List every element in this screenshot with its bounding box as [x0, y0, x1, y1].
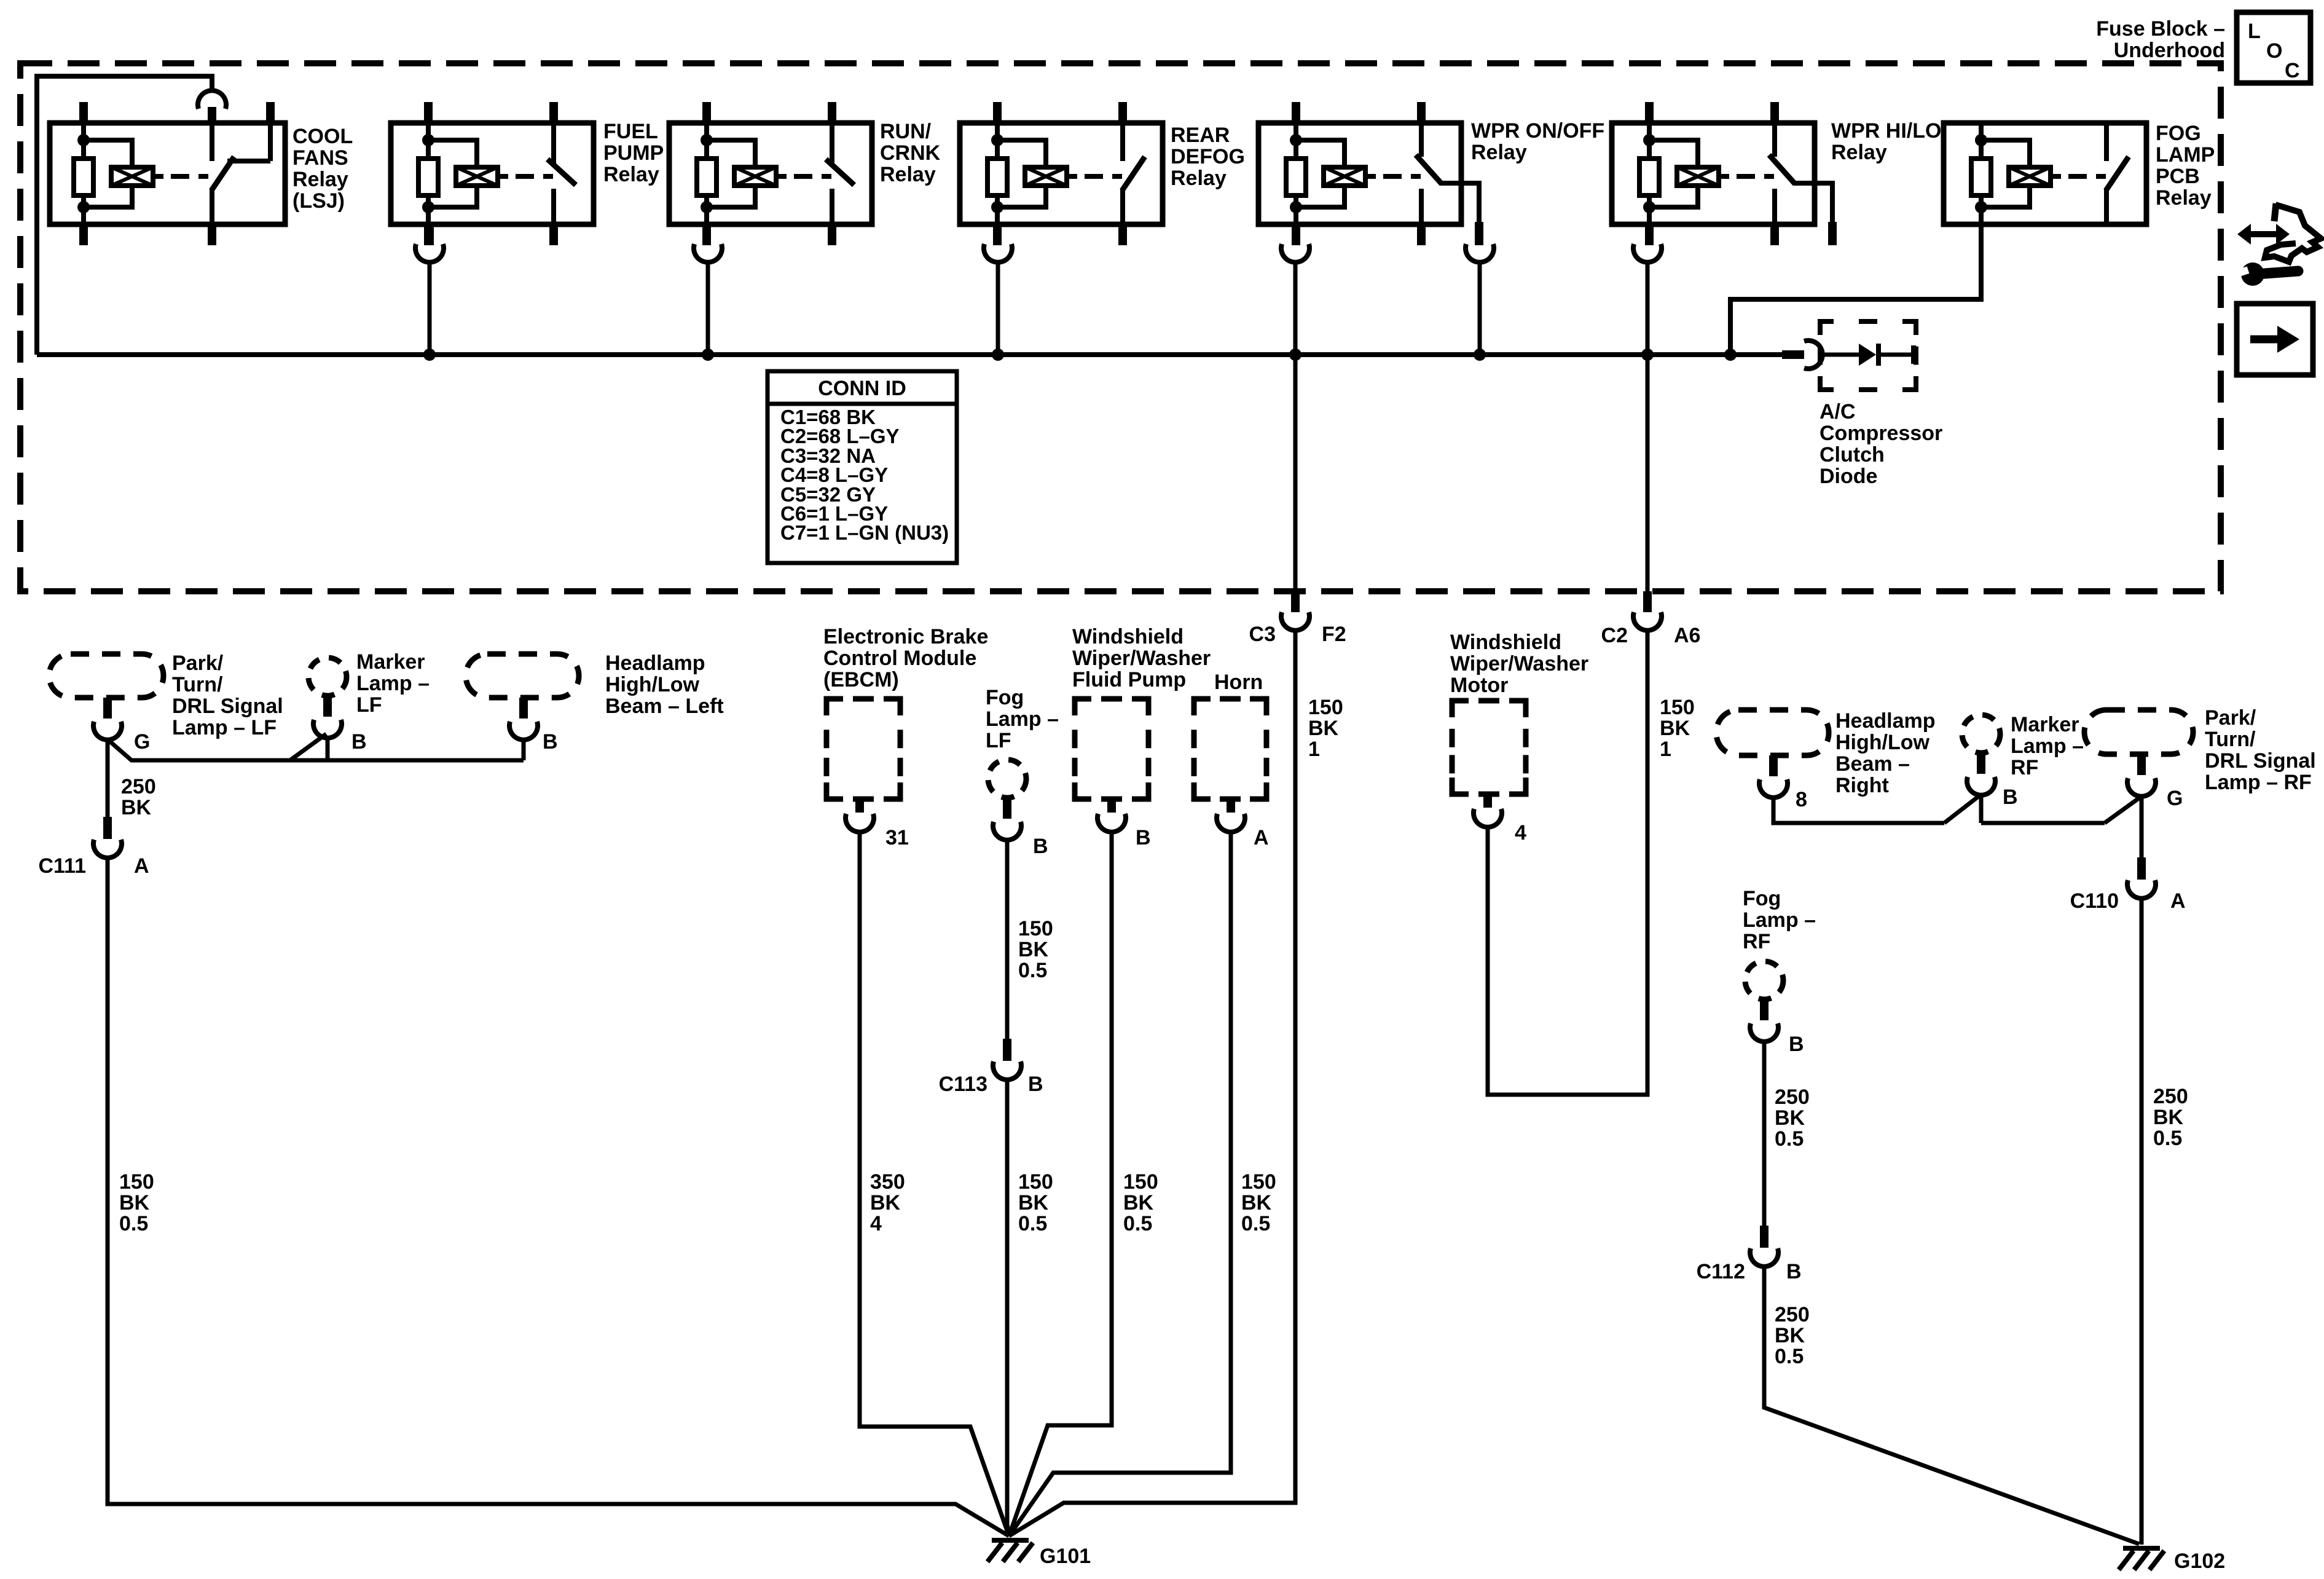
label 150 BK 0.5 (C111 wire) — [119, 1170, 154, 1235]
label 150 BK 0.5 (horn wire) — [1241, 1170, 1276, 1235]
wire right lamps ground tie — [1773, 795, 2140, 823]
junction dot FUEL PUMP at bus — [423, 348, 436, 361]
svg-text:CONN ID: CONN ID — [818, 377, 906, 400]
lamp Fog Lamp - RF (dashed circle) — [1745, 961, 1783, 999]
label pin A C111 — [134, 854, 149, 878]
svg-text:BK: BK — [870, 1191, 901, 1215]
svg-text:250: 250 — [2153, 1085, 2188, 1108]
label 250 BK 0.5 (C110 wire) — [2153, 1085, 2188, 1150]
label pin B C112 — [1786, 1260, 1802, 1283]
svg-text:0.5: 0.5 — [1018, 1212, 1047, 1235]
svg-text:A6: A6 — [1674, 624, 1700, 647]
svg-text:RUN/: RUN/ — [880, 120, 932, 143]
label pin G (RF) — [2167, 787, 2183, 810]
wire FOG LAMP relay coil to bus — [1730, 224, 1981, 355]
svg-text:1: 1 — [1660, 738, 1671, 761]
svg-text:Lamp –: Lamp – — [986, 707, 1059, 731]
label G102 — [2174, 1549, 2225, 1573]
svg-text:Fluid Pump: Fluid Pump — [1072, 668, 1186, 691]
svg-text:BK: BK — [1018, 938, 1049, 961]
connector C110 male pin and arc — [2127, 857, 2156, 899]
label Headlamp High/Low Beam - Right — [1835, 709, 1936, 797]
svg-text:REAR: REAR — [1171, 124, 1230, 147]
module Windshield Wiper/Washer Fluid Pump dashed box — [1075, 699, 1148, 799]
svg-text:Park/: Park/ — [172, 652, 224, 675]
svg-text:Diode: Diode — [1820, 465, 1877, 488]
svg-text:B: B — [2003, 786, 2018, 809]
label Headlamp High/Low Beam - Left — [605, 652, 724, 718]
label pin B C113 — [1028, 1073, 1043, 1096]
svg-text:BK: BK — [1308, 717, 1339, 740]
label 150 BK 1 (C3 wire) — [1308, 696, 1343, 761]
label Park/Turn/DRL Signal Lamp - LF — [172, 652, 283, 739]
svg-text:Relay: Relay — [1171, 167, 1227, 190]
svg-text:Marker: Marker — [356, 650, 425, 674]
label pin 31 — [885, 826, 909, 849]
label G101 — [1040, 1545, 1091, 1568]
svg-text:150: 150 — [1660, 696, 1695, 719]
wire park/turn RF down to C110 — [2140, 796, 2144, 859]
svg-text:Windshield: Windshield — [1450, 631, 1561, 654]
connector pin B of marker RF — [1967, 753, 1995, 795]
relay RUN/CRNK with coil, resistor and switch — [669, 102, 872, 245]
svg-text:31: 31 — [885, 826, 909, 849]
label pin G (LF) — [134, 730, 150, 754]
svg-text:Relay: Relay — [1831, 141, 1887, 164]
svg-text:G: G — [2167, 787, 2183, 810]
label Park/Turn/DRL Signal Lamp - RF — [2205, 706, 2316, 794]
svg-text:BK: BK — [1660, 717, 1690, 740]
svg-text:0.5: 0.5 — [1241, 1212, 1270, 1235]
label C110 — [2070, 889, 2119, 913]
wire WPR HI/LO coil pin to C2 connector — [1646, 262, 1650, 593]
label 250 BK (LF wire) — [121, 775, 156, 819]
svg-text:BK: BK — [1775, 1324, 1805, 1347]
svg-text:L: L — [2248, 20, 2261, 43]
svg-text:BK: BK — [1123, 1191, 1154, 1215]
svg-text:BK: BK — [1018, 1191, 1049, 1215]
lamp Headlamp High/Low Beam - Right (dashed outline) — [1716, 710, 1829, 755]
connector arc WPR ON/OFF relay coil ground pin — [1281, 244, 1309, 262]
relay WPR HI/LO with coil, resistor and switch — [1612, 102, 1837, 245]
label C113 — [939, 1073, 987, 1096]
svg-text:Headlamp: Headlamp — [1835, 709, 1936, 733]
svg-text:BK: BK — [119, 1191, 150, 1215]
relay COOL FANS (LSJ) with coil, resistor and switch — [50, 102, 285, 245]
relay FOG LAMP PCB with coil, resistor and switch — [1944, 123, 2146, 224]
svg-text:DEFOG: DEFOG — [1171, 145, 1245, 168]
connector pin G of Park/Turn lamp LF — [93, 698, 122, 740]
connector C113 male pin and arc — [993, 1039, 1021, 1080]
wire pump to ground G101 — [1009, 831, 1112, 1536]
label C2 — [1601, 624, 1628, 647]
svg-text:Marker: Marker — [2011, 713, 2079, 736]
wire C113 to ground G101 — [1007, 1079, 1009, 1536]
svg-text:WPR HI/LO: WPR HI/LO — [1831, 119, 1941, 143]
svg-text:WPR ON/OFF: WPR ON/OFF — [1471, 119, 1604, 143]
label WPR ON/OFF Relay — [1471, 119, 1604, 164]
label REAR DEFOG Relay — [1171, 124, 1245, 190]
svg-text:Relay: Relay — [2156, 186, 2212, 210]
junction dot RUN/CRNK at bus — [702, 348, 714, 361]
svg-text:Right: Right — [1835, 774, 1889, 797]
wire C2 A6 to wiper motor — [1488, 629, 1647, 1095]
svg-text:B: B — [1136, 826, 1151, 849]
ground G101 symbol — [987, 1540, 1033, 1562]
label COOL FANS Relay (LSJ) — [292, 125, 353, 213]
connector pin 4 of wiper motor — [1474, 794, 1502, 827]
svg-text:LF: LF — [986, 729, 1011, 752]
svg-text:Electronic Brake: Electronic Brake — [823, 625, 988, 648]
svg-text:0.5: 0.5 — [1775, 1345, 1804, 1368]
svg-text:0.5: 0.5 — [119, 1212, 148, 1235]
svg-text:C110: C110 — [2070, 889, 2119, 913]
label pin A C110 — [2170, 889, 2186, 913]
connector pin B of washer pump — [1097, 799, 1126, 832]
label FOG LAMP PCB Relay — [2156, 122, 2215, 210]
svg-text:FANS: FANS — [292, 146, 348, 170]
label pin B marker LF — [351, 730, 367, 754]
relay REAR DEFOG with coil, resistor and switch — [960, 102, 1163, 245]
label pin 4 — [1515, 821, 1526, 845]
relay FUEL PUMP with coil, resistor and switch — [391, 102, 594, 245]
svg-text:Park/: Park/ — [2205, 706, 2256, 730]
label pin B fog RF — [1789, 1033, 1804, 1056]
label C112 — [1697, 1260, 1745, 1283]
svg-text:Relay: Relay — [880, 163, 936, 186]
wire C110 to ground G102 — [2140, 897, 2144, 1545]
svg-text:Compressor: Compressor — [1820, 422, 1942, 445]
svg-text:150: 150 — [1123, 1170, 1158, 1194]
connector arc RUN/CRNK relay ground pin — [694, 244, 722, 262]
svg-text:(LSJ): (LSJ) — [292, 189, 345, 213]
label Fuse Block - Underhood — [2096, 17, 2225, 62]
label C3 — [1249, 623, 1276, 646]
connector arc FUEL PUMP relay ground pin — [415, 224, 444, 262]
svg-text:BK: BK — [2153, 1106, 2184, 1129]
svg-text:Beam – Left: Beam – Left — [605, 695, 724, 718]
label pin B marker RF — [2003, 786, 2018, 809]
label pin B headlamp left — [543, 730, 558, 754]
svg-text:Wiper/Washer: Wiper/Washer — [1072, 647, 1211, 670]
svg-text:150: 150 — [1018, 1170, 1053, 1194]
svg-text:CRNK: CRNK — [880, 141, 941, 165]
svg-text:C: C — [2285, 59, 2300, 82]
connector C2 A6 male pin and arc — [1633, 591, 1662, 631]
wire REAR DEFOG relay to bus — [996, 262, 1000, 355]
svg-text:Lamp –: Lamp – — [1743, 908, 1816, 932]
wire FUEL PUMP relay to bus — [428, 262, 432, 355]
svg-text:8: 8 — [1796, 788, 1807, 811]
svg-text:Headlamp: Headlamp — [605, 652, 705, 675]
svg-text:Control Module: Control Module — [823, 647, 976, 670]
svg-text:150: 150 — [1018, 917, 1053, 940]
svg-text:RF: RF — [2011, 756, 2038, 779]
icon service adjust (arrows, hand, wrench) — [2237, 203, 2321, 286]
svg-text:F2: F2 — [1322, 623, 1346, 646]
svg-text:Fuse Block –: Fuse Block – — [2096, 17, 2225, 41]
label pin A horn — [1254, 826, 1269, 849]
label Fog Lamp - RF — [1743, 887, 1816, 953]
icon continue-arrow box — [2237, 304, 2313, 375]
label 150 BK 0.5 (fog LF lower) — [1018, 1170, 1053, 1235]
svg-text:A: A — [1254, 826, 1269, 849]
connector arc REAR DEFOG relay ground pin — [984, 244, 1012, 262]
svg-text:Lamp –: Lamp – — [356, 672, 430, 695]
svg-text:Windshield: Windshield — [1072, 625, 1184, 648]
wire ground bus inside fuse block — [37, 352, 1783, 357]
svg-text:350: 350 — [870, 1170, 905, 1194]
table CONN ID — [767, 371, 957, 563]
svg-text:DRL Signal: DRL Signal — [172, 695, 283, 718]
module Windshield Wiper/Washer Motor dashed box — [1452, 701, 1526, 794]
label A6 — [1674, 624, 1700, 647]
lamp Park/Turn/DRL Signal Lamp - RF (dashed outline) — [2084, 710, 2193, 754]
svg-text:Beam –: Beam – — [1835, 752, 1910, 776]
connector arc WPR HI/LO relay coil ground pin — [1633, 244, 1662, 262]
svg-text:Lamp – LF: Lamp – LF — [172, 716, 277, 739]
label 150 BK 1 (C2 wire) — [1660, 696, 1695, 761]
svg-text:Relay: Relay — [603, 163, 659, 186]
label 350 BK 4 — [870, 1170, 905, 1235]
svg-text:B: B — [1786, 1260, 1802, 1283]
label Electronic Brake Control Module (EBCM) — [823, 625, 988, 691]
svg-text:A: A — [134, 854, 149, 878]
svg-text:FUEL: FUEL — [603, 120, 658, 143]
lamp Marker Lamp - RF (dashed circle) — [1962, 715, 2000, 753]
label WPR HI/LO Relay — [1831, 119, 1941, 164]
wire C3 F2 to ground G101 — [1009, 629, 1295, 1536]
lamp Park/Turn/DRL Signal Lamp - LF (dashed outline) — [49, 654, 163, 698]
connector pin B of Fog Lamp LF — [993, 798, 1021, 840]
svg-text:Lamp –: Lamp – — [2011, 734, 2084, 758]
connector arc WPR ON/OFF switch output pin — [1466, 244, 1494, 262]
svg-text:A/C: A/C — [1820, 400, 1856, 423]
svg-text:Turn/: Turn/ — [2205, 728, 2256, 751]
svg-text:LAMP: LAMP — [2156, 143, 2215, 167]
svg-text:LF: LF — [356, 693, 382, 717]
junction dot WPR ON/OFF output at bus — [1474, 348, 1486, 361]
svg-text:B: B — [1028, 1073, 1043, 1096]
wire bus left wall to COOL FANS relay feed — [37, 76, 212, 355]
lamp Fog Lamp - LF (dashed circle) — [988, 760, 1026, 798]
relay WPR ON/OFF with coil, resistor and switch — [1258, 102, 1483, 245]
label 150 BK 0.5 (fog LF upper) — [1018, 917, 1053, 982]
label FUEL PUMP Relay — [603, 120, 664, 186]
module Horn dashed box — [1194, 699, 1266, 799]
wire fog RF to C112 — [1762, 1041, 1767, 1227]
wire C111 to ground G101 — [108, 857, 1009, 1536]
label Marker Lamp - LF — [356, 650, 430, 717]
connector pin B of fog RF — [1750, 999, 1778, 1042]
diode A/C compressor clutch — [1820, 321, 1916, 390]
label 250 BK 0.5 (fog RF upper) — [1775, 1085, 1810, 1151]
lamp Headlamp High/Low Beam - Left (dashed outline) — [466, 654, 579, 698]
svg-text:250: 250 — [1775, 1085, 1810, 1109]
svg-text:150: 150 — [1308, 696, 1343, 719]
label Horn — [1214, 671, 1263, 694]
svg-text:O: O — [2266, 39, 2282, 63]
svg-text:Fog: Fog — [986, 686, 1024, 709]
connector pin B of Marker lamp LF — [313, 696, 342, 738]
ground G102 symbol — [2119, 1548, 2164, 1570]
connector C112 male pin and arc — [1750, 1226, 1778, 1267]
svg-text:C111: C111 — [38, 854, 86, 878]
svg-text:RF: RF — [1743, 930, 1770, 953]
wire G to marker and headlamp (left lamps ground tie) — [108, 734, 524, 760]
svg-text:4: 4 — [870, 1212, 882, 1235]
module EBCM dashed box — [826, 699, 900, 799]
wire WPR ON/OFF coil pin to C3 connector — [1294, 262, 1298, 593]
connector pin G of park/turn RF — [2127, 754, 2156, 797]
svg-text:Lamp – RF: Lamp – RF — [2205, 771, 2312, 794]
svg-text:0.5: 0.5 — [1775, 1127, 1804, 1151]
svg-text:Clutch: Clutch — [1820, 443, 1885, 467]
wire fog LF to C113 — [1005, 840, 1010, 1040]
connector pin 31 of EBCM — [846, 799, 874, 832]
svg-text:0.5: 0.5 — [2153, 1127, 2182, 1150]
label A/C Compressor Clutch Diode — [1820, 400, 1942, 488]
label Windshield Wiper/Washer Motor — [1450, 631, 1588, 697]
svg-text:G102: G102 — [2174, 1549, 2225, 1573]
wire WPR ON/OFF switch output to bus — [1478, 262, 1482, 355]
label C111 — [38, 854, 86, 878]
svg-text:4: 4 — [1515, 821, 1526, 845]
svg-text:High/Low: High/Low — [605, 673, 700, 696]
wire horn to ground G101 — [1009, 831, 1231, 1536]
svg-text:G: G — [134, 730, 150, 754]
svg-text:B: B — [351, 730, 367, 754]
svg-text:DRL Signal: DRL Signal — [2205, 749, 2316, 773]
svg-text:Horn: Horn — [1214, 671, 1263, 694]
svg-text:150: 150 — [119, 1170, 154, 1194]
svg-text:PUMP: PUMP — [603, 141, 664, 165]
svg-text:A: A — [2170, 889, 2186, 913]
connector pin A of horn — [1217, 799, 1245, 832]
svg-text:Relay: Relay — [1471, 141, 1527, 164]
svg-text:Relay: Relay — [292, 168, 348, 191]
label Marker Lamp - RF — [2011, 713, 2084, 779]
label Fog Lamp - LF — [986, 686, 1059, 752]
junction dot WPR HI/LO coil at bus — [1641, 348, 1654, 361]
svg-text:C112: C112 — [1697, 1260, 1745, 1283]
svg-text:1: 1 — [1308, 738, 1320, 761]
label pin 8 — [1796, 788, 1807, 811]
svg-text:150: 150 — [1241, 1170, 1276, 1194]
svg-text:Motor: Motor — [1450, 674, 1508, 697]
svg-text:BK: BK — [121, 796, 152, 819]
svg-text:B: B — [1789, 1033, 1804, 1056]
wire EBCM to ground G101 — [860, 831, 1009, 1536]
label RUN/CRNK Relay — [880, 120, 941, 186]
svg-text:0.5: 0.5 — [1123, 1212, 1152, 1235]
svg-text:PCB: PCB — [2156, 165, 2200, 188]
connector C3 F2 male pin and arc — [1281, 591, 1309, 631]
svg-text:250: 250 — [1775, 1303, 1810, 1326]
svg-text:C2: C2 — [1601, 624, 1628, 647]
svg-text:250: 250 — [121, 775, 156, 798]
svg-text:COOL: COOL — [292, 125, 353, 148]
label pin B fog LF — [1033, 835, 1048, 858]
svg-text:B: B — [1033, 835, 1048, 858]
connector pin and arc to A/C diode — [1782, 341, 1823, 369]
lamp Marker Lamp - LF (dashed circle) — [308, 658, 347, 696]
wire RUN/CRNK relay to bus — [706, 262, 710, 355]
connector pin 8 of headlamp right — [1759, 755, 1788, 798]
svg-text:High/Low: High/Low — [1835, 731, 1930, 754]
svg-text:B: B — [543, 730, 558, 754]
svg-text:0.5: 0.5 — [1018, 959, 1047, 982]
icon LOC box — [2237, 12, 2310, 83]
svg-text:BK: BK — [1775, 1106, 1805, 1130]
svg-text:Fog: Fog — [1743, 887, 1781, 910]
svg-text:Turn/: Turn/ — [172, 673, 223, 696]
junction dot FOG LAMP feed at bus — [1724, 348, 1737, 361]
connector arc COOL FANS relay feed — [198, 90, 226, 109]
label F2 — [1322, 623, 1346, 646]
svg-text:Underhood: Underhood — [2114, 39, 2225, 62]
svg-text:FOG: FOG — [2156, 122, 2201, 145]
svg-text:(EBCM): (EBCM) — [823, 668, 899, 691]
svg-text:Wiper/Washer: Wiper/Washer — [1450, 652, 1588, 675]
label 150 BK 0.5 (pump wire) — [1123, 1170, 1158, 1235]
svg-text:C7=1 L–GN (NU3): C7=1 L–GN (NU3) — [780, 521, 949, 544]
junction dot REAR DEFOG at bus — [992, 348, 1004, 361]
wire C112 to ground G102 — [1764, 1266, 2139, 1544]
junction dot WPR ON/OFF coil at bus — [1289, 348, 1301, 361]
svg-text:BK: BK — [1241, 1191, 1272, 1215]
label pin B pump — [1136, 826, 1151, 849]
svg-text:C113: C113 — [939, 1073, 987, 1096]
connector C111 male pin and arc — [93, 738, 122, 858]
svg-text:C3: C3 — [1249, 623, 1276, 646]
label 250 BK 0.5 (fog RF lower) — [1775, 1303, 1810, 1368]
label Windshield Wiper/Washer Fluid Pump — [1072, 625, 1211, 691]
fuse block underhood dashed boundary — [20, 63, 2221, 591]
svg-text:G101: G101 — [1040, 1545, 1091, 1568]
connector pin B of Headlamp Left — [509, 698, 538, 740]
